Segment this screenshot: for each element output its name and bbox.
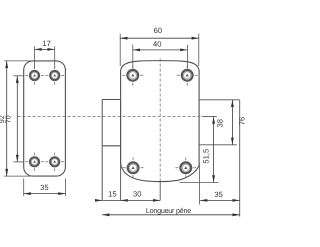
svg-text:17: 17 — [42, 39, 50, 48]
dim 35 — [24, 193, 66, 195]
lock body outline — [121, 61, 200, 182]
svg-text:60: 60 — [154, 26, 162, 35]
dim 51,5 — [213, 117, 215, 183]
body right edge extension down — [198, 163, 200, 205]
dim 35 extension line right — [64, 179, 66, 197]
dim 30 line — [121, 199, 161, 201]
dim 15 outside arrow — [96, 199, 102, 201]
dim 15 line — [102, 199, 120, 201]
body screw hole bottom-left — [123, 157, 144, 178]
cylinder bottom extension line — [199, 144, 237, 146]
plate outline — [24, 61, 66, 176]
dim 70 extension line top — [13, 75, 23, 77]
screw hole top-left — [25, 66, 44, 85]
svg-text:15: 15 — [108, 189, 116, 198]
body screw hole top-right — [177, 65, 198, 86]
screw hole bottom-right — [45, 153, 64, 172]
dim 40 extension line left — [132, 45, 134, 69]
svg-text:70: 70 — [3, 115, 12, 123]
svg-text:38: 38 — [216, 119, 225, 127]
dim 60 — [120, 37, 199, 39]
svg-text:76: 76 — [238, 117, 247, 125]
screw hole bottom-left — [25, 153, 44, 172]
svg-text:35: 35 — [40, 183, 48, 192]
dim 40 extension line right — [186, 45, 188, 69]
dim 17 extension line right — [54, 46, 56, 68]
dim 92 extension line bottom — [4, 175, 33, 177]
dim 92 extension line top — [4, 60, 33, 62]
centerline solid extension right for 51,5 — [202, 116, 217, 118]
dim 76 reference line — [239, 100, 241, 217]
strike box bottom edge — [102, 145, 120, 147]
dim 92 — [6, 61, 8, 176]
body bottom extension line — [179, 182, 218, 184]
dim 70 — [16, 76, 18, 162]
svg-text:Longueur pêne: Longueur pêne — [146, 206, 191, 215]
dim 60 extension line right — [198, 34, 200, 66]
svg-text:30: 30 — [133, 189, 141, 198]
dim Longueur pene — [102, 214, 240, 216]
vertical centerline of lock body — [159, 59, 161, 183]
svg-text:35: 35 — [214, 190, 222, 199]
dim 17 — [35, 48, 55, 50]
screw hole top-right — [45, 66, 64, 85]
dim 40 — [133, 49, 188, 51]
svg-text:51,5: 51,5 — [202, 149, 211, 164]
dim 35 bolt — [200, 199, 240, 201]
dim 35 extension line left — [23, 179, 25, 197]
dim 30 left arrow — [121, 199, 128, 201]
dim 38 — [231, 100, 233, 145]
svg-text:40: 40 — [153, 39, 161, 48]
dim 17 extension line left — [34, 46, 36, 68]
dim 70 extension line bottom — [13, 161, 23, 163]
cylinder top extension line — [199, 99, 240, 101]
strike box left edge / extension line — [101, 100, 103, 201]
dim 60 extension line left — [119, 34, 121, 66]
strike box right edge / extension line — [120, 100, 122, 201]
vertical centerline solid extension down — [159, 182, 161, 200]
strike box top edge — [102, 99, 120, 101]
body screw hole bottom-right — [175, 157, 196, 178]
body screw hole top-left — [122, 65, 143, 86]
horizontal centerline (both views) — [18, 116, 203, 118]
